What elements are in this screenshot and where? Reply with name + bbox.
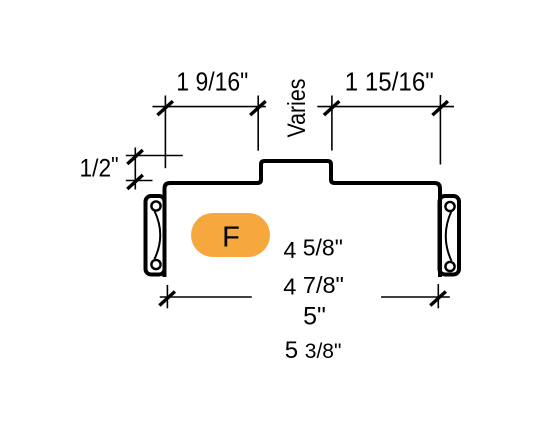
svg-text:5 3/8": 5 3/8" [285,337,342,364]
svg-text:5": 5" [303,303,326,331]
svg-text:1/2": 1/2" [80,152,119,183]
svg-text:F: F [222,222,240,254]
svg-text:1 9/16": 1 9/16" [176,69,248,97]
svg-text:4 5/8": 4 5/8" [284,235,343,264]
svg-text:4 7/8": 4 7/8" [283,272,344,300]
svg-text:Varies: Varies [283,79,311,138]
svg-text:1 15/16": 1 15/16" [345,69,434,97]
